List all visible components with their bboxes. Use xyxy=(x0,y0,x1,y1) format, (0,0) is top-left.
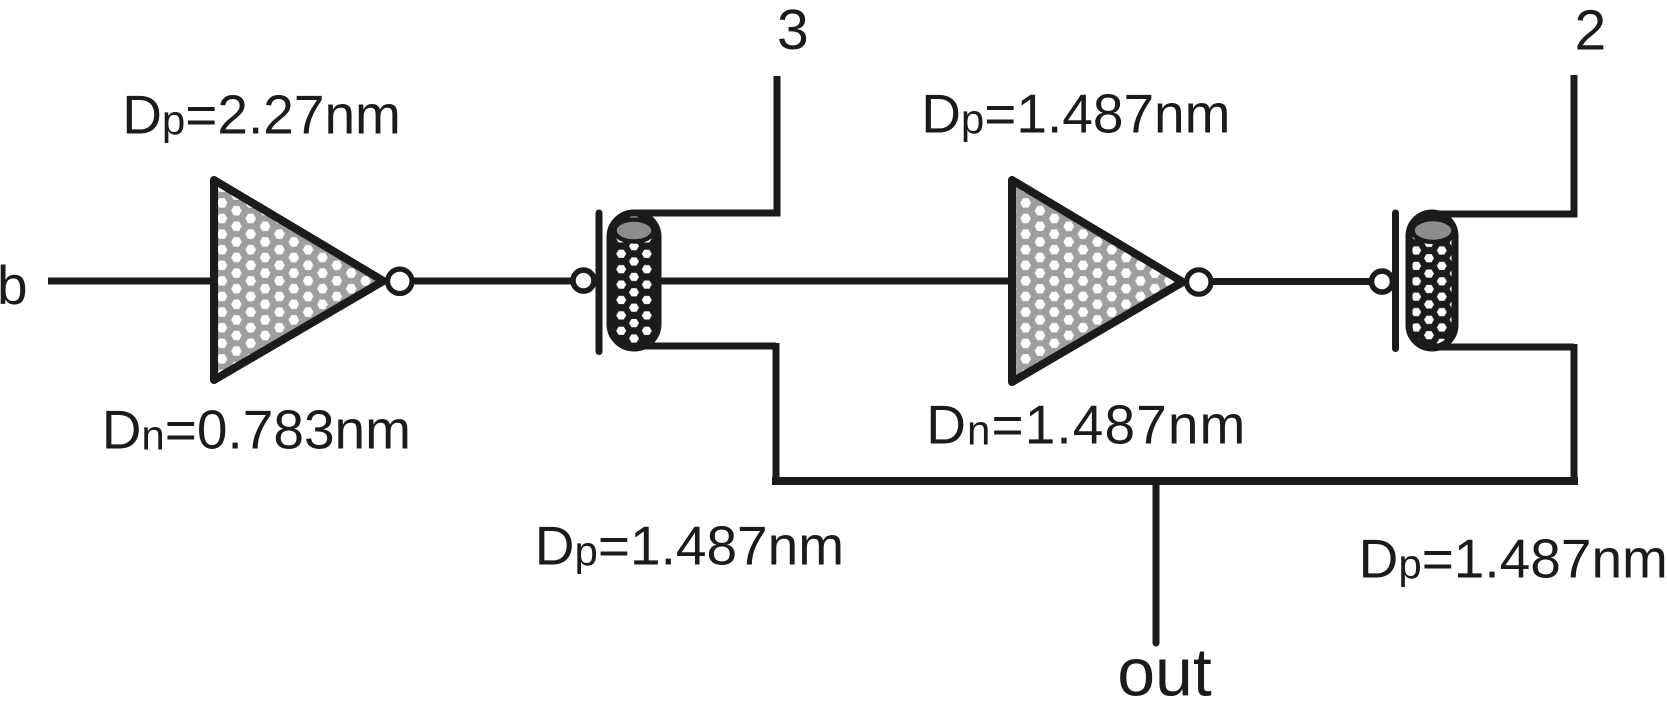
svg-text:Dp=1.487nm: Dp=1.487nm xyxy=(1359,527,1667,589)
svg-text:2: 2 xyxy=(1575,0,1607,63)
svg-text:b: b xyxy=(0,254,28,316)
svg-text:out: out xyxy=(1117,635,1212,709)
svg-text:Dp=1.487nm: Dp=1.487nm xyxy=(921,82,1230,144)
svg-text:Dp=2.27nm: Dp=2.27nm xyxy=(122,83,401,145)
svg-text:Dn=0.783nm: Dn=0.783nm xyxy=(102,398,411,460)
svg-text:Dp=1.487nm: Dp=1.487nm xyxy=(535,514,844,576)
svg-text:Dn=1.487nm: Dn=1.487nm xyxy=(926,393,1246,455)
svg-text:3: 3 xyxy=(777,0,809,62)
